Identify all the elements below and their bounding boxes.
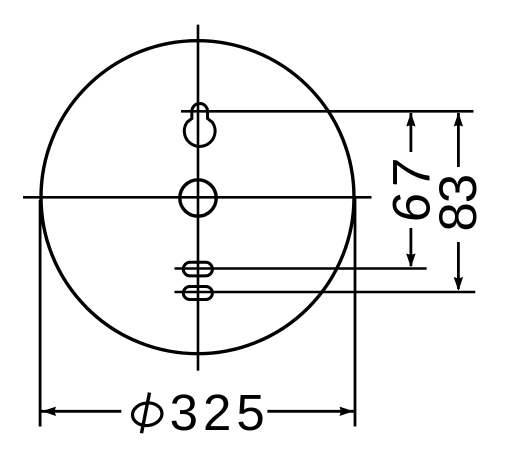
extension line from keyhole center (181, 110, 474, 113)
extension line left of phi325 (39, 200, 42, 427)
arrow down 67 (406, 254, 415, 268)
arrow down 83 (454, 277, 463, 291)
arrow up 83 (454, 113, 463, 127)
extension line from upper slot center (175, 267, 427, 270)
lower screw slot (183, 287, 212, 300)
extension line from lower slot center (175, 291, 476, 294)
arrow up 67 (406, 113, 415, 127)
keyhole mounting slot (184, 104, 215, 147)
dimension line 67 lower segment (409, 228, 412, 266)
arrow right phi325 (340, 407, 354, 416)
diameter symbol phi ellipse (131, 402, 163, 427)
dimension line 67 upper segment (409, 113, 412, 152)
center wiring hole circle (180, 180, 216, 216)
svg-text:325: 325 (170, 384, 270, 441)
dimension line 83 upper segment (457, 113, 460, 167)
extension line right of phi325 (354, 197, 357, 427)
svg-text:83: 83 (429, 175, 488, 232)
upper screw slot (183, 262, 212, 276)
dimension line phi325 left segment (42, 410, 122, 413)
horizontal centerline (23, 196, 372, 199)
dimension line 83 lower segment (457, 242, 460, 289)
arrow left phi325 (42, 407, 56, 416)
mounting plate outer circle phi325 (41, 41, 354, 354)
diameter symbol phi slash (142, 393, 150, 434)
dimension line phi325 right segment (267, 410, 354, 413)
vertical centerline (197, 25, 200, 371)
